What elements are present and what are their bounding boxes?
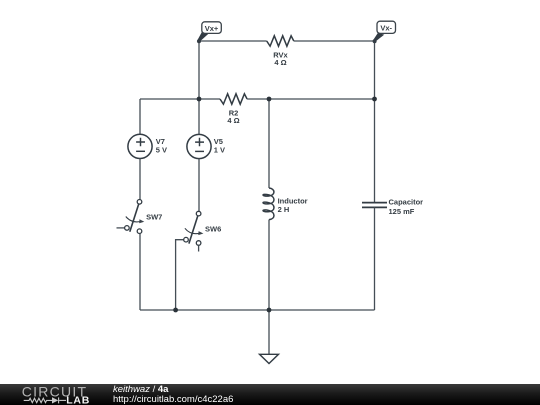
resistor R2	[220, 94, 247, 104]
footer text	[113, 385, 233, 405]
voltage source V5	[187, 134, 211, 158]
node junction Vx+ vertical and R2 row	[197, 97, 202, 102]
switch SW7	[117, 200, 145, 234]
node label Vx+	[197, 22, 222, 44]
svg-text:SW7: SW7	[146, 213, 162, 222]
footer bar	[0, 384, 540, 405]
wire left rail upper	[139, 99, 141, 134]
svg-text:Vx+: Vx+	[205, 24, 219, 33]
svg-text:125 mF: 125 mF	[389, 207, 415, 216]
node junction inductor tap	[267, 97, 272, 102]
wire top rail left segment	[199, 40, 267, 42]
svg-text:4 Ω: 4 Ω	[227, 116, 239, 125]
svg-text:5 V: 5 V	[156, 145, 167, 154]
node label Vx-	[372, 21, 395, 43]
node junction ground tap	[267, 308, 272, 313]
wire right rail lower	[374, 207, 376, 310]
svg-text:Vx-: Vx-	[380, 24, 392, 33]
wire inductor branch upper	[268, 99, 270, 188]
node junction SW6 common to bottom rail	[173, 308, 178, 313]
svg-text:4 Ω: 4 Ω	[274, 58, 286, 67]
wire V5 to SW6	[198, 159, 200, 212]
capacitor C1	[362, 203, 387, 208]
wire ground stem	[268, 310, 270, 354]
svg-text:2 H: 2 H	[278, 205, 290, 214]
wire V7 to SW7	[139, 159, 141, 200]
svg-text:Capacitor: Capacitor	[389, 198, 424, 207]
wire top rail right segment	[294, 40, 375, 42]
svg-text:1 V: 1 V	[214, 146, 225, 155]
ground	[260, 354, 279, 363]
voltage source V7	[128, 134, 152, 158]
wire inductor branch lower	[268, 220, 270, 310]
switch SW6	[176, 211, 204, 310]
resistor RVx	[267, 36, 294, 46]
wire bottom rail	[140, 309, 375, 311]
svg-text:SW6: SW6	[205, 225, 221, 234]
wire middle vertical from Vx+ to R2 row	[198, 41, 200, 99]
wire SW7 to bottom rail	[139, 234, 141, 310]
wire R2 row left segment	[140, 98, 220, 100]
wire V5 vertical from junction	[198, 99, 200, 135]
wire SW6 bottom stub	[198, 245, 200, 251]
inductor L1	[263, 188, 274, 220]
node junction R2 row right	[372, 97, 377, 102]
svg-text:LAB: LAB	[66, 395, 90, 405]
wire right rail upper	[374, 41, 376, 202]
CircuitLab logo	[0, 384, 100, 405]
wire R2 row right segment	[247, 98, 374, 100]
